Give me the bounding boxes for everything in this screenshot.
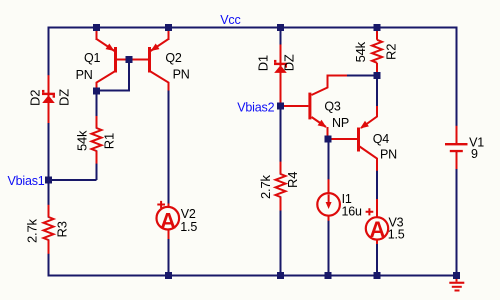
svg-text:NP: NP (332, 116, 349, 130)
svg-text:54k: 54k (353, 41, 368, 62)
svg-text:Q4: Q4 (373, 132, 390, 146)
svg-text:R3: R3 (55, 221, 70, 237)
svg-text:Q1: Q1 (84, 51, 101, 65)
svg-text:DZ: DZ (57, 89, 72, 106)
svg-text:16u: 16u (342, 204, 363, 218)
svg-text:Q3: Q3 (324, 100, 341, 114)
svg-text:PN: PN (380, 147, 397, 161)
svg-text:1.5: 1.5 (180, 220, 197, 234)
svg-text:54k: 54k (75, 130, 90, 151)
svg-text:D2: D2 (28, 90, 43, 106)
svg-text:Vbias1: Vbias1 (8, 174, 45, 188)
svg-text:A: A (369, 217, 385, 242)
svg-text:DZ: DZ (282, 54, 297, 71)
svg-text:D1: D1 (256, 55, 271, 71)
svg-text:R2: R2 (384, 44, 399, 60)
svg-text:1.5: 1.5 (388, 228, 405, 242)
svg-text:Vcc: Vcc (220, 13, 240, 27)
svg-text:PN: PN (173, 68, 190, 82)
svg-text:Vbias2: Vbias2 (237, 101, 274, 115)
svg-text:2.7k: 2.7k (25, 219, 40, 243)
svg-text:9: 9 (471, 147, 478, 161)
svg-text:R4: R4 (285, 172, 300, 188)
svg-text:R1: R1 (102, 133, 117, 149)
svg-text:PN: PN (76, 68, 93, 82)
svg-text:A: A (160, 209, 176, 234)
svg-text:2.7k: 2.7k (258, 175, 273, 199)
svg-text:Q2: Q2 (165, 51, 182, 65)
